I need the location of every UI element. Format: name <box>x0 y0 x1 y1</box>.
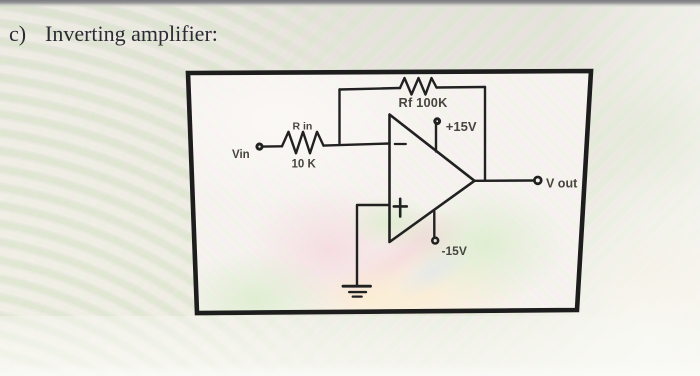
node -15V terminal <box>432 238 438 244</box>
wire Vin to R in <box>263 145 282 148</box>
resistor R in 10K zigzag <box>282 132 324 154</box>
node +15V terminal <box>435 119 440 124</box>
wire non-inverting input <box>357 205 390 285</box>
node V out terminal <box>534 177 541 184</box>
wire +15V stub <box>435 125 437 152</box>
wire output <box>475 179 534 182</box>
svg-text:-15V: -15V <box>442 244 467 258</box>
wire feedback right vertical to output <box>484 87 486 181</box>
svg-text:+15V: +15V <box>446 119 477 134</box>
title caption <box>9 21 218 47</box>
svg-text:Vin: Vin <box>232 149 250 161</box>
svg-text:Rf 100K: Rf 100K <box>399 95 449 110</box>
svg-text:V out: V out <box>546 177 578 191</box>
ground <box>343 286 371 296</box>
wire R in to inverting input <box>324 144 390 146</box>
schematic frame box <box>130 30 595 350</box>
wire feedback top left segment <box>340 88 401 90</box>
wire -15V stub <box>433 212 435 237</box>
svg-text:R in: R in <box>293 121 313 133</box>
op-amp plus input cross <box>394 199 407 217</box>
op-amp minus input dash <box>395 143 406 145</box>
resistor Rf 100K zigzag <box>400 78 437 95</box>
wire feedback top right segment <box>437 86 486 89</box>
svg-text:10 K: 10 K <box>292 158 317 170</box>
wire feedback left vertical <box>338 90 340 144</box>
node Vin terminal <box>257 144 262 149</box>
op-amp U1 triangle <box>390 115 475 243</box>
